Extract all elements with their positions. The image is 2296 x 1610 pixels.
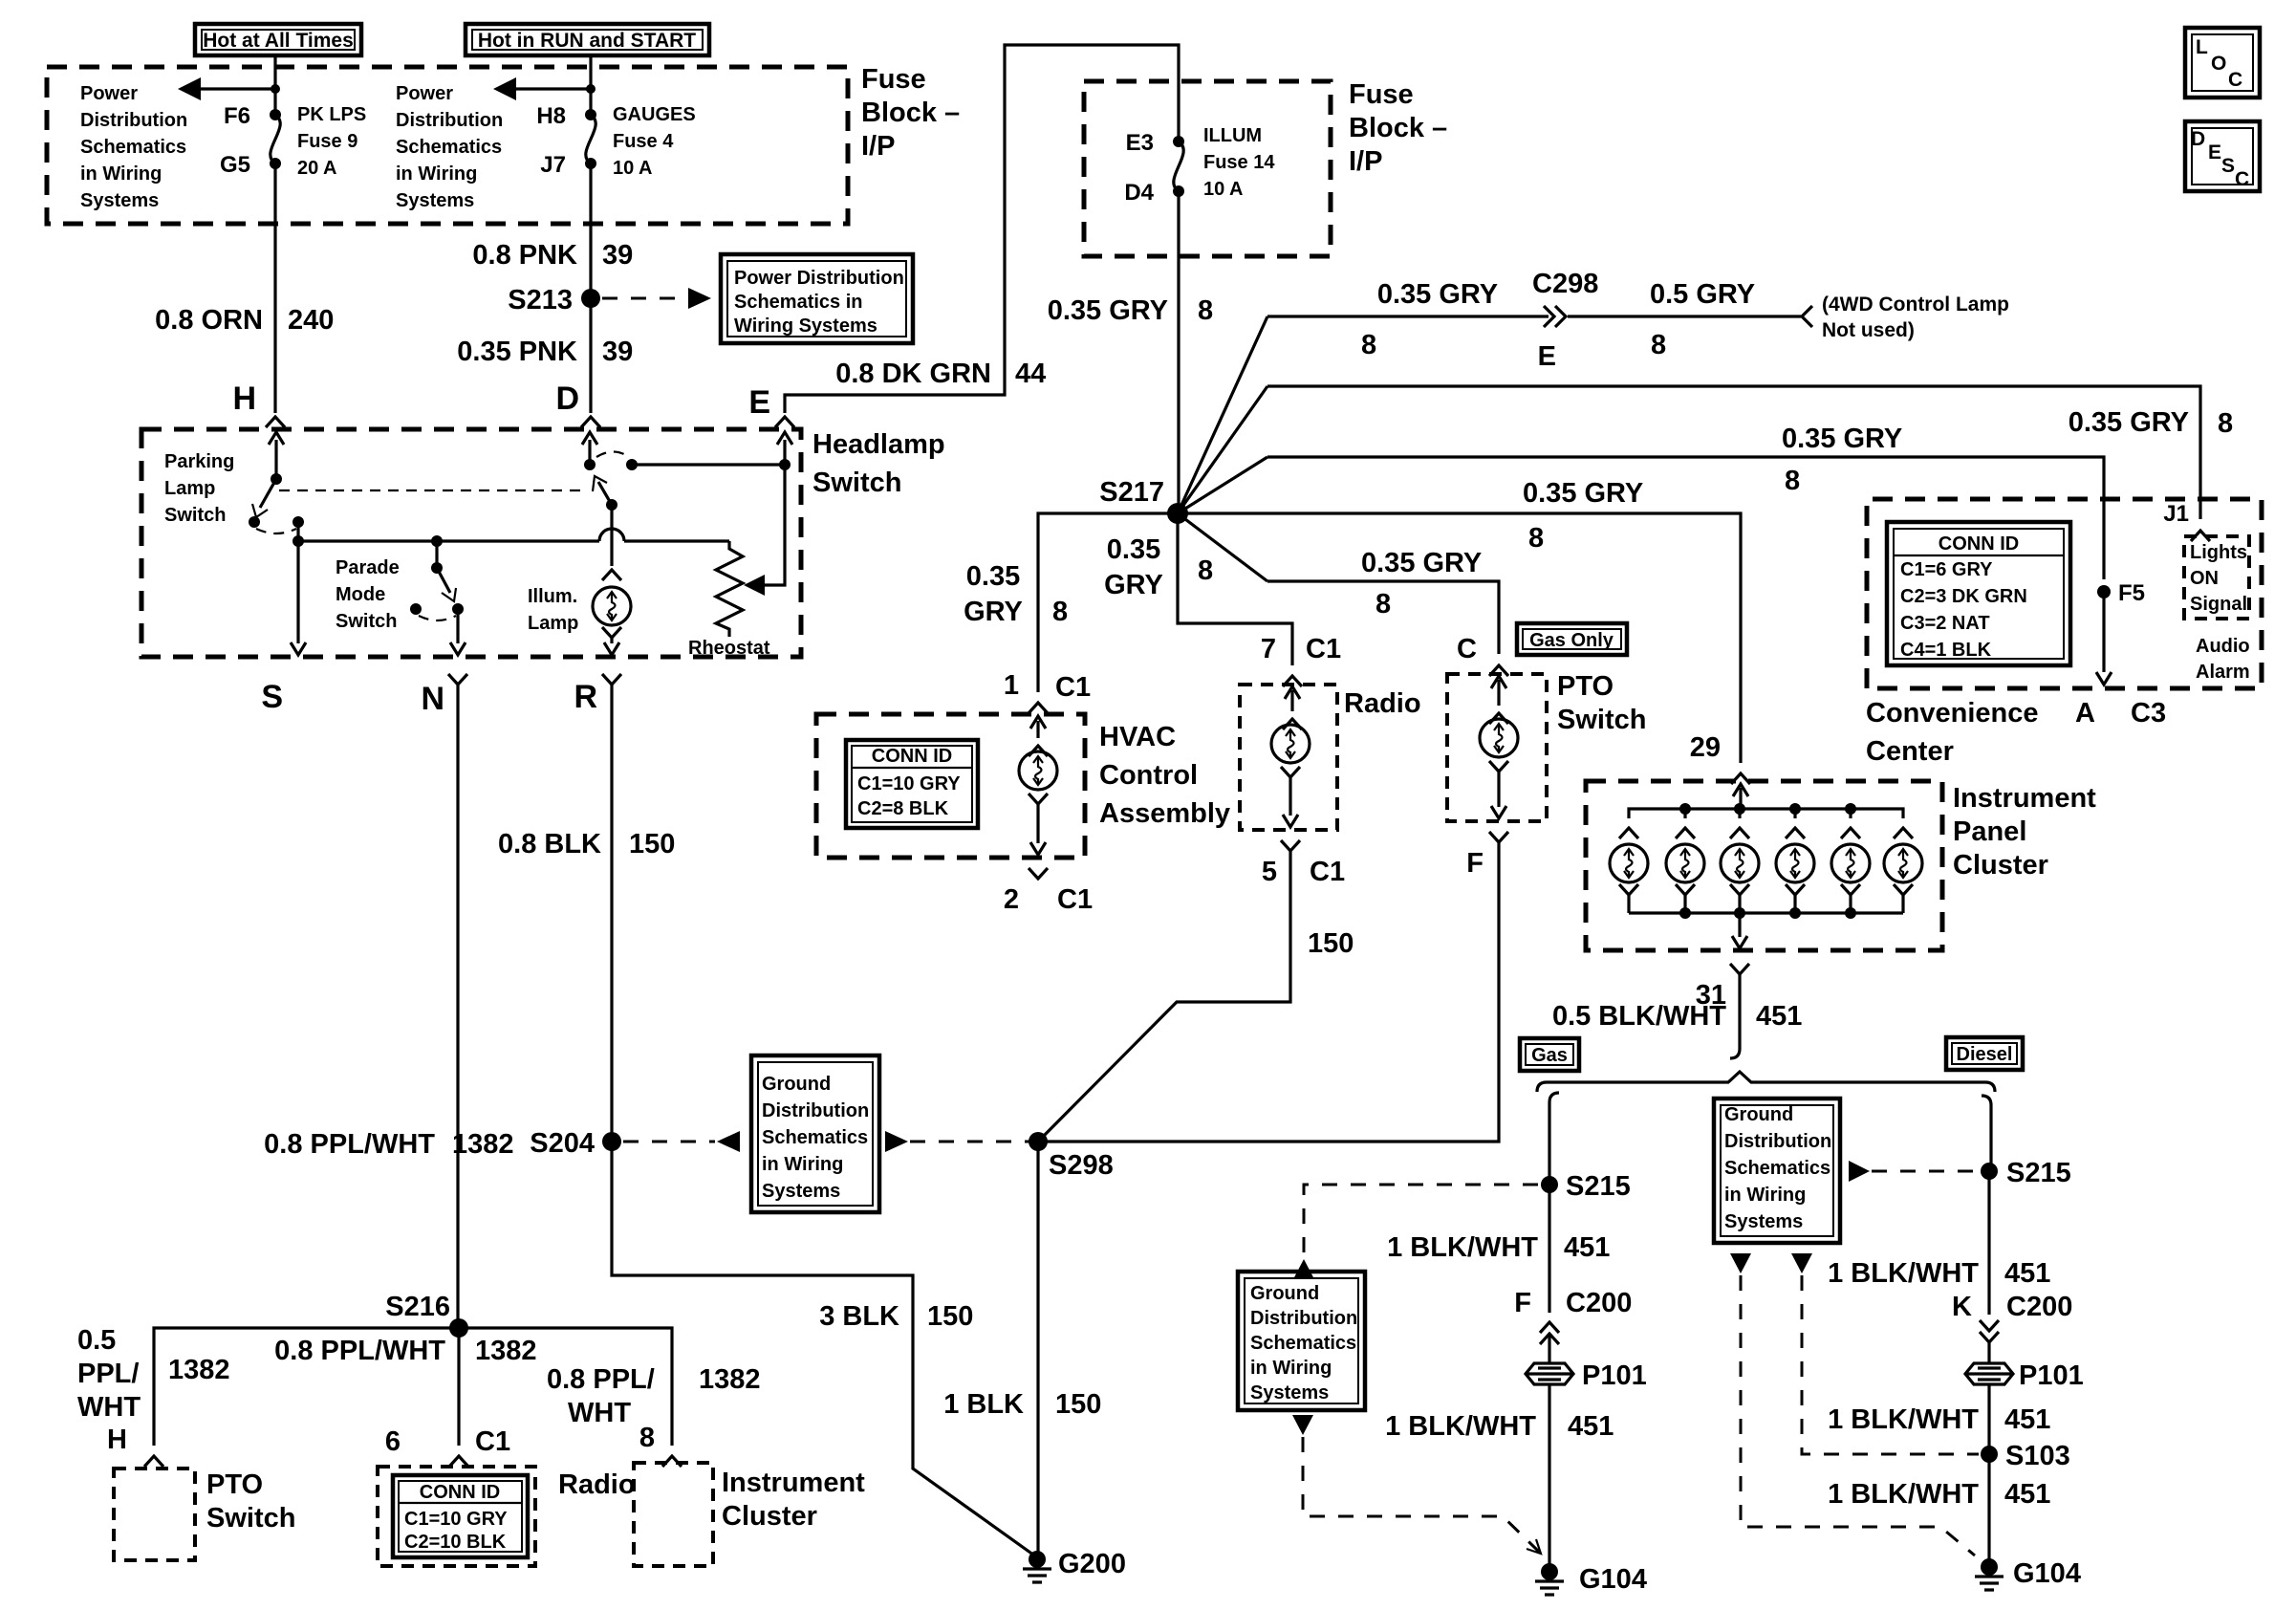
svg-text:Parade: Parade: [336, 557, 400, 578]
svg-text:Distribution: Distribution: [1250, 1308, 1357, 1329]
svg-text:PTO: PTO: [1557, 671, 1614, 702]
svg-text:Ground: Ground: [1724, 1104, 1793, 1125]
connector: PTO pin H: [144, 1456, 163, 1467]
svg-text:1 BLK/WHT: 1 BLK/WHT: [1828, 1479, 1979, 1510]
svg-text:F6: F6: [224, 103, 250, 129]
wire: cluster top bus: [1629, 803, 1903, 818]
node F5: [2097, 580, 2145, 606]
svg-text:39: 39: [602, 337, 633, 367]
svg-text:Cluster: Cluster: [1953, 850, 2048, 881]
Fuse Block - I/P dashed box: [47, 67, 848, 224]
svg-text:Distribution: Distribution: [396, 110, 503, 131]
Instrument Cluster dashed box: [634, 1463, 713, 1566]
wire: E terminal into box: [777, 432, 792, 465]
wire: arrow to power distribution (left): [178, 77, 280, 100]
wire: 0.8 PNK 39 from J7 to S213: [589, 163, 592, 298]
svg-text:C4=1 BLK: C4=1 BLK: [1900, 640, 1992, 661]
Convenience Center dashed box: [1867, 499, 2262, 688]
svg-text:8: 8: [1375, 589, 1391, 620]
svg-text:5: 5: [1262, 857, 1277, 887]
svg-text:0.35 PNK: 0.35 PNK: [457, 337, 577, 367]
svg-text:Ground: Ground: [762, 1074, 831, 1095]
wire: HVAC lamp to pin 2: [1029, 794, 1048, 855]
svg-text:8: 8: [1052, 597, 1068, 627]
wire: 0.35 GRY 8 to J1: [1267, 386, 2200, 519]
dashed link: S213 to power distribution note: [602, 288, 711, 309]
svg-text:F5: F5: [2118, 580, 2145, 606]
lamp: cluster illumination 5: [1831, 828, 1870, 913]
svg-text:10 A: 10 A: [613, 158, 653, 179]
svg-text:150: 150: [1308, 928, 1354, 959]
wire: 0.8 DK GRN 44 from E up over to fuse block: [785, 45, 1179, 413]
svg-text:0.35: 0.35: [1107, 534, 1160, 565]
value: 0.35 PNK 39: [457, 337, 633, 367]
svg-text:451: 451: [1564, 1232, 1610, 1263]
svg-text:CONN ID: CONN ID: [420, 1482, 500, 1503]
wire: S leg with arrow: [291, 541, 306, 655]
value: 0.35 GRY 8 (HVAC wire): [964, 561, 1068, 627]
svg-text:in Wiring: in Wiring: [1724, 1185, 1806, 1206]
svg-text:0.35 GRY: 0.35 GRY: [1523, 478, 1643, 509]
svg-text:D: D: [555, 381, 579, 417]
svg-text:Hot in RUN and START: Hot in RUN and START: [478, 30, 696, 52]
value: 0.35 GRY 8 (F5 wire): [1782, 424, 1902, 496]
svg-text:0.35 GRY: 0.35 GRY: [1782, 424, 1902, 454]
svg-text:1 BLK/WHT: 1 BLK/WHT: [1828, 1404, 1979, 1435]
wire: S217 diagonal to PTO wire: [1178, 513, 1267, 581]
svg-text:1382: 1382: [699, 1364, 761, 1395]
connector: PTO pin F: [1466, 832, 1508, 879]
svg-text:20 A: 20 A: [297, 158, 337, 179]
wire: S217 diagonal to F5 wire: [1178, 457, 1267, 513]
wire: 1 BLK 150 from S298 to G200: [1036, 1142, 1039, 1557]
splice S217: [1099, 477, 1188, 524]
label box: Hot at All Times: [195, 24, 361, 55]
wire: C200 to P101 (diesel): [1987, 1342, 1990, 1363]
CONN ID box (HVAC): [846, 740, 978, 828]
svg-text:Distribution: Distribution: [1724, 1131, 1831, 1152]
svg-text:C: C: [2228, 69, 2242, 91]
svg-text:2: 2: [1004, 884, 1019, 915]
svg-text:29: 29: [1690, 732, 1721, 763]
label: Parade Mode Switch: [336, 557, 400, 632]
svg-text:0.8 ORN: 0.8 ORN: [155, 305, 263, 336]
svg-text:Gas: Gas: [1531, 1045, 1568, 1066]
wire: S217 diagonal to C298 wire: [1178, 316, 1267, 513]
svg-text:150: 150: [927, 1301, 973, 1332]
svg-text:8: 8: [2218, 408, 2233, 439]
svg-text:Power: Power: [396, 83, 453, 104]
svg-text:0.35: 0.35: [966, 561, 1020, 592]
wire: feed stub from Hot at All Times: [273, 55, 276, 115]
svg-text:S204: S204: [530, 1128, 595, 1159]
splice S215 (diesel): [1981, 1158, 2071, 1188]
note: Power Distribution Schematics in Wiring Systems (right): [396, 83, 503, 211]
label box: Gas Only: [1517, 623, 1627, 655]
wire: diesel branch down to S215: [1989, 1105, 1992, 1171]
svg-text:7: 7: [1261, 634, 1276, 664]
svg-text:Switch: Switch: [164, 505, 226, 526]
fuse: GAUGES Fuse 4 10 A: [585, 109, 596, 169]
svg-text:Fuse: Fuse: [1349, 79, 1414, 110]
svg-text:C3: C3: [2131, 698, 2166, 729]
svg-text:C2=3 DK GRN: C2=3 DK GRN: [1900, 586, 2027, 607]
svg-text:Audio: Audio: [2196, 636, 2250, 657]
wire: PTO lamp to pin F: [1489, 761, 1508, 818]
svg-text:8: 8: [1785, 466, 1800, 496]
dashed box: Lights ON Signal: [2184, 536, 2249, 619]
connector: PTO switch pin C: [1457, 634, 1508, 676]
value: 0.5 GRY 8: [1650, 279, 1755, 360]
switch: parade mode switch blade: [410, 541, 464, 620]
svg-text:1382: 1382: [475, 1336, 537, 1366]
svg-text:Ground: Ground: [1250, 1283, 1319, 1304]
lamp: cluster illumination 3: [1721, 828, 1759, 913]
value: 0.5 PPL/WHT 1382 H: [77, 1325, 230, 1455]
svg-text:Fuse 14: Fuse 14: [1203, 152, 1275, 173]
svg-text:Power Distribution: Power Distribution: [734, 268, 904, 289]
wire: into HVAC lamp: [1029, 716, 1048, 756]
svg-text:C1: C1: [1310, 857, 1345, 887]
value: 0.8 BLK 150 (R leg): [498, 829, 675, 859]
wire: N leg with arrow: [450, 609, 466, 655]
svg-text:C1: C1: [475, 1426, 510, 1457]
connector: IPC pin 29: [1690, 732, 1750, 784]
wire: into radio lamp: [1283, 686, 1302, 729]
fuse: PK LPS Fuse 9 20 A: [270, 109, 281, 169]
svg-text:G104: G104: [1579, 1564, 1647, 1595]
svg-text:39: 39: [602, 240, 633, 271]
svg-text:PPL/: PPL/: [77, 1359, 139, 1389]
svg-text:0.8 PPL/: 0.8 PPL/: [547, 1364, 655, 1395]
svg-text:1 BLK/WHT: 1 BLK/WHT: [1387, 1232, 1538, 1263]
svg-text:451: 451: [2004, 1479, 2050, 1510]
wire: S217 down to radio pin 7: [1178, 513, 1292, 665]
CONN ID box (convenience center): [1887, 522, 2070, 665]
svg-text:10 A: 10 A: [1203, 179, 1244, 200]
svg-text:O: O: [2211, 53, 2226, 75]
switch: headlamp switch blade at D: [582, 432, 638, 511]
connector pin H: [232, 381, 285, 427]
svg-text:J1: J1: [2163, 501, 2189, 527]
svg-text:Switch: Switch: [1557, 705, 1646, 735]
svg-text:K: K: [1952, 1292, 1972, 1322]
connector: radio pin 5 C1: [1262, 840, 1345, 887]
value: 0.35 GRY 8 (radio wire): [1104, 534, 1213, 600]
svg-text:1382: 1382: [452, 1129, 514, 1160]
wire: S217 to instrument panel cluster pin 29: [1178, 513, 1741, 763]
PTO Switch dashed box (bottom): [114, 1469, 195, 1560]
grommet P101 (diesel): [1965, 1360, 2084, 1391]
wire: 0.8 ORN 240 from G5 to H: [273, 163, 276, 413]
ground G104 (diesel): [1975, 1558, 2081, 1590]
lamp: Illum. Lamp: [528, 586, 631, 634]
lamp: cluster illumination 4: [1776, 828, 1814, 913]
connector: pin K of C200: [1952, 1292, 2072, 1342]
value: 0.8 PPL/WHT 1382 (upper): [264, 1129, 513, 1160]
value: 0.35 GRY 8 (IPC wire): [1523, 478, 1643, 554]
svg-text:L: L: [2196, 36, 2208, 58]
wire: 1 BLK/WHT 451 diesel lower to G104: [1987, 1454, 1990, 1564]
svg-text:Systems: Systems: [1724, 1211, 1803, 1232]
svg-text:451: 451: [1568, 1411, 1614, 1442]
svg-text:Parking: Parking: [164, 451, 234, 472]
svg-text:Assembly: Assembly: [1099, 798, 1230, 829]
connector below R: [574, 674, 621, 715]
wire: arrow to power distribution (right): [493, 77, 596, 100]
label: Convenience Center: [1866, 698, 2039, 767]
lamp: HVAC illumination: [1019, 751, 1057, 790]
svg-text:D4: D4: [1124, 180, 1154, 206]
wire: 3 BLK 150 from S204 to G200: [612, 1142, 1037, 1557]
wire: gas branch down to S215: [1548, 1102, 1550, 1185]
svg-text:8: 8: [1361, 330, 1376, 360]
value: 0.35 GRY 8 (fuse to S217): [1048, 295, 1213, 326]
svg-text:S215: S215: [1566, 1171, 1631, 1202]
wire: C200 to P101 (gas): [1548, 1335, 1550, 1363]
value: 1 BLK/WHT 451 (diesel upper): [1828, 1258, 2050, 1289]
svg-text:H8: H8: [536, 103, 566, 129]
lamp: cluster illumination 6: [1884, 828, 1922, 913]
wire: 0.35 GRY 8 to PTO switch: [1267, 581, 1499, 654]
svg-text:CONN ID: CONN ID: [872, 746, 952, 767]
wire: radio lamp to pin 5: [1281, 767, 1300, 827]
svg-text:Switch: Switch: [206, 1503, 295, 1534]
svg-text:451: 451: [2004, 1404, 2050, 1435]
svg-text:Alarm: Alarm: [2196, 662, 2250, 683]
connector pin D: [555, 381, 600, 427]
svg-text:1382: 1382: [168, 1355, 230, 1385]
dashed link: S204 to ground distribution note: [623, 1131, 740, 1152]
svg-text:Systems: Systems: [762, 1181, 840, 1202]
connector: illum lamp top: [602, 570, 621, 580]
wire: bus inside headlamp switch: [292, 529, 729, 547]
value: 1 BLK/WHT 451 (diesel lower): [1828, 1479, 2050, 1510]
svg-text:6: 6: [385, 1426, 401, 1457]
splice S298: [1029, 1132, 1114, 1181]
HVAC Control Assembly dashed box: [816, 714, 1085, 858]
svg-text:Systems: Systems: [80, 190, 159, 211]
svg-text:0.8 PPL/WHT: 0.8 PPL/WHT: [274, 1336, 445, 1366]
svg-text:0.35 GRY: 0.35 GRY: [1377, 279, 1498, 310]
svg-text:C2=8 BLK: C2=8 BLK: [857, 798, 949, 819]
svg-text:Radio: Radio: [1344, 688, 1421, 719]
svg-text:Schematics: Schematics: [762, 1127, 868, 1148]
svg-text:S216: S216: [385, 1292, 450, 1322]
mechanical link dashed: [279, 490, 585, 491]
svg-text:451: 451: [1756, 1001, 1802, 1032]
svg-text:Switch: Switch: [336, 611, 397, 632]
note: Power Distribution Schematics in Wiring Systems (left): [80, 83, 187, 211]
svg-text:44: 44: [1015, 359, 1046, 389]
value: 0.8 DK GRN 44: [835, 359, 1046, 389]
svg-text:150: 150: [629, 829, 675, 859]
CONN ID box (radio, dashed): [378, 1467, 535, 1566]
splice S204: [530, 1128, 621, 1159]
wire: 0.35 GRY 8 to F5: [1267, 457, 2104, 579]
wire: radio pin 5 to S298: [1038, 851, 1290, 1142]
connector: HVAC pin 2 C1: [1004, 868, 1093, 915]
svg-text:S215: S215: [2006, 1158, 2071, 1188]
svg-text:150: 150: [1055, 1389, 1101, 1420]
svg-text:Instrument: Instrument: [1953, 783, 2096, 814]
wire: S217 to HVAC pin 1: [1038, 513, 1178, 692]
svg-text:ON: ON: [2190, 568, 2219, 589]
svg-text:Schematics: Schematics: [1724, 1158, 1830, 1179]
value: 0.5 BLK/WHT 451: [1552, 1001, 1802, 1032]
svg-text:Fuse 4: Fuse 4: [613, 131, 674, 152]
label: Fuse Block - I/P (right): [1349, 79, 1447, 177]
svg-text:C: C: [2235, 168, 2249, 190]
svg-text:0.35 GRY: 0.35 GRY: [1048, 295, 1168, 326]
value: 1 BLK/WHT 451 (gas lower): [1385, 1411, 1614, 1442]
switch: parking lamp switch blade: [249, 473, 304, 533]
wire: 0.35 GRY 8 to C298: [1267, 315, 1549, 317]
svg-text:A: A: [2075, 698, 2095, 729]
svg-text:in Wiring: in Wiring: [396, 163, 477, 185]
label: Fuse Block - I/P (left): [861, 64, 960, 162]
svg-text:Schematics: Schematics: [396, 137, 502, 158]
svg-text:E3: E3: [1126, 130, 1154, 156]
svg-text:CONN ID: CONN ID: [1939, 533, 2019, 555]
wire: 0.5 GRY 8 to 4WD control lamp: [1568, 306, 1812, 327]
svg-text:Wiring Systems: Wiring Systems: [734, 315, 877, 337]
svg-text:ILLUM: ILLUM: [1203, 125, 1262, 146]
wire: S216 branch bus: [154, 1328, 672, 1446]
svg-text:0.8 DK GRN: 0.8 DK GRN: [835, 359, 991, 389]
label box: Gas: [1520, 1038, 1579, 1071]
connector: IPC pin 31: [1696, 964, 1749, 1011]
wire: 29 feed into cluster bus: [1733, 784, 1748, 809]
svg-text:C1: C1: [1057, 884, 1093, 915]
label box: Diesel: [1946, 1037, 2023, 1070]
svg-text:C1: C1: [1306, 634, 1341, 664]
ground G104 (gas): [1535, 1563, 1647, 1595]
svg-text:Schematics: Schematics: [80, 137, 186, 158]
wire: H terminal into parking lamp switch: [269, 432, 284, 479]
svg-text:0.5 BLK/WHT: 0.5 BLK/WHT: [1552, 1001, 1726, 1032]
wire: rheostat wiper from E: [744, 465, 785, 596]
svg-text:Cluster: Cluster: [722, 1501, 817, 1532]
svg-text:D: D: [2191, 128, 2205, 150]
svg-text:1 BLK: 1 BLK: [943, 1389, 1024, 1420]
value: 0.35 GRY 8 (J1 wire): [2069, 407, 2233, 439]
wire: 0.5 BLK/WHT 451: [1738, 974, 1741, 1049]
svg-text:G104: G104: [2013, 1558, 2081, 1589]
reference box LOC: [2185, 28, 2260, 98]
connector: pin F of C200: [1514, 1288, 1632, 1344]
svg-text:Diesel: Diesel: [1957, 1044, 2013, 1065]
svg-text:0.8 PPL/WHT: 0.8 PPL/WHT: [264, 1129, 435, 1160]
svg-text:C200: C200: [2006, 1292, 2072, 1322]
value: 0.8 PNK 39: [472, 240, 633, 271]
svg-text:in Wiring: in Wiring: [762, 1154, 843, 1175]
svg-text:1 BLK/WHT: 1 BLK/WHT: [1385, 1411, 1536, 1442]
svg-text:GRY: GRY: [964, 597, 1023, 627]
svg-text:GRY: GRY: [1104, 570, 1163, 600]
value: 0.8 ORN 240: [155, 305, 334, 336]
label: Instrument Cluster: [722, 1468, 865, 1532]
svg-text:Headlamp: Headlamp: [812, 429, 945, 460]
svg-text:1: 1: [1004, 670, 1019, 701]
svg-text:S: S: [2221, 155, 2235, 177]
lamp: cluster illumination 1: [1610, 828, 1648, 913]
svg-text:in Wiring: in Wiring: [1250, 1358, 1332, 1379]
note box: Ground Distribution Schematics in Wiring Systems (diesel): [1714, 1099, 1840, 1243]
svg-text:Convenience: Convenience: [1866, 698, 2039, 729]
svg-text:8: 8: [1198, 295, 1213, 326]
label: HVAC Control Assembly: [1099, 722, 1230, 829]
svg-text:Gas Only: Gas Only: [1529, 630, 1614, 651]
wire: S216 to radio pin 6: [457, 1328, 460, 1446]
label: Audio Alarm: [2196, 636, 2250, 683]
value: 3 BLK 150: [819, 1301, 973, 1332]
svg-text:E: E: [748, 384, 770, 421]
PTO Switch dashed box (top): [1447, 674, 1547, 821]
dashed link: ground distribution to G104 (gas): [1292, 1415, 1541, 1554]
wire: into PTO lamp: [1489, 676, 1508, 724]
wire: 1 BLK/WHT 451 gas upper: [1548, 1185, 1550, 1313]
connector: radio pin 6 C1: [385, 1426, 510, 1467]
svg-text:Distribution: Distribution: [762, 1100, 869, 1121]
svg-text:Control: Control: [1099, 760, 1198, 791]
svg-text:8: 8: [1198, 555, 1213, 586]
svg-text:Block –: Block –: [1349, 113, 1447, 143]
svg-text:Instrument: Instrument: [722, 1468, 865, 1498]
wire: 1 BLK/WHT 451 diesel upper: [1987, 1171, 1990, 1315]
wire: illum lamp feed: [610, 505, 613, 566]
svg-text:C2=10 BLK: C2=10 BLK: [404, 1532, 507, 1553]
svg-text:0.5 GRY: 0.5 GRY: [1650, 279, 1755, 310]
connector: HVAC pin 1 C1: [1004, 670, 1091, 713]
wire: feed stub from Hot in RUN and START: [589, 55, 592, 115]
wire: N leg 0.8 PPL/WHT 1382 down to S216: [456, 685, 459, 1328]
wire: S298 to PTO pin F leg: [1038, 842, 1499, 1142]
Radio dashed box: [1240, 685, 1337, 830]
svg-text:H: H: [232, 381, 256, 417]
svg-text:240: 240: [288, 305, 334, 336]
Headlamp Switch dashed box: [141, 429, 801, 657]
svg-text:8: 8: [1651, 330, 1666, 360]
label: PTO Switch: [1557, 671, 1646, 735]
value: 0.8 PPL/ WHT 1382 (right): [547, 1364, 761, 1428]
svg-text:Systems: Systems: [396, 190, 474, 211]
fuse: ILLUM Fuse 14 10 A: [1173, 136, 1184, 197]
wire: parking switch to bus: [296, 522, 299, 541]
svg-text:H: H: [107, 1425, 127, 1455]
wire: 0.35 PNK 39 from S213 to D: [589, 298, 592, 413]
svg-text:Power: Power: [80, 83, 138, 104]
svg-text:Switch: Switch: [812, 468, 901, 498]
svg-text:Lamp: Lamp: [164, 478, 215, 499]
svg-text:Fuse: Fuse: [861, 64, 926, 95]
svg-text:F: F: [1466, 848, 1484, 879]
note: 4WD Control Lamp Not used: [1822, 294, 2009, 341]
connector: instrument cluster pin 8: [639, 1423, 682, 1467]
wire: 0.35 GRY 8 from D4 to S217: [1177, 191, 1180, 513]
connector C298 pin E: [1532, 269, 1598, 372]
svg-text:Not used): Not used): [1822, 319, 1915, 341]
svg-text:GAUGES: GAUGES: [613, 104, 696, 125]
dashed link: ground note to S103: [1791, 1253, 1979, 1454]
svg-text:PTO: PTO: [206, 1469, 263, 1500]
splice S216: [385, 1292, 468, 1338]
svg-text:1 BLK/WHT: 1 BLK/WHT: [1828, 1258, 1979, 1289]
svg-text:Schematics: Schematics: [1250, 1333, 1356, 1354]
svg-text:E: E: [1538, 341, 1556, 372]
svg-text:S217: S217: [1099, 477, 1164, 508]
svg-text:Block –: Block –: [861, 98, 960, 128]
